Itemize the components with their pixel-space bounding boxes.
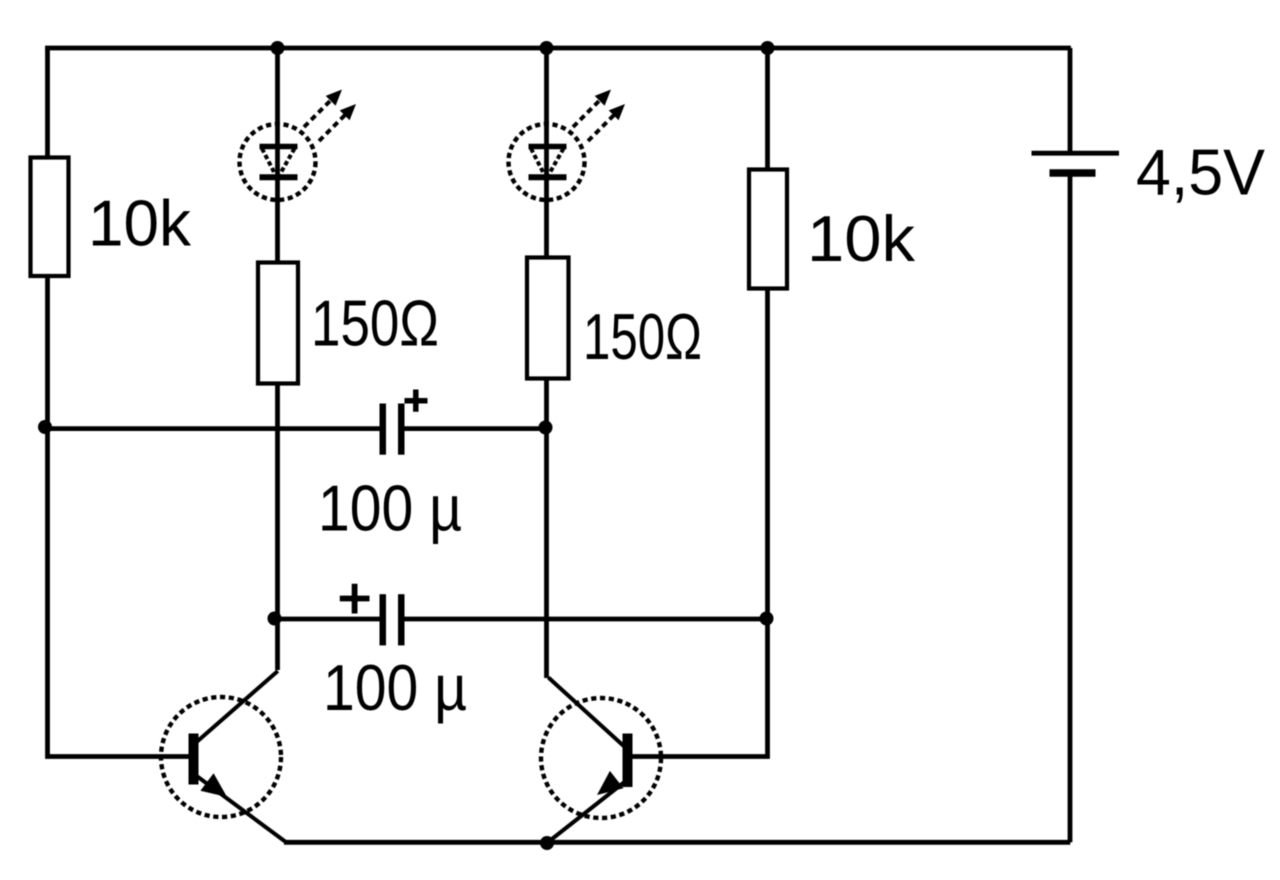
transistor Q2 emitter lead [548,780,628,843]
svg-text:100 µ: 100 µ [318,472,462,545]
wire capacitor C1 left lead [48,426,381,431]
wire bottom rail [284,840,1070,845]
LED D1 triangle anode bar [260,144,298,150]
capacitor C1 left plate [380,404,387,455]
LED D1 triangle left side [262,149,276,176]
svg-text:10k: 10k [807,202,916,275]
transistor Q2 collector lead [548,678,627,750]
node branch2 / C1 lead [539,421,553,435]
capacitor C2 left plate [380,594,387,645]
LED D1 cathode bar [260,174,298,180]
transistor Q1 base bar [189,734,199,785]
transistor Q2 emitter arrowhead [597,771,624,795]
transistor Q1 circle [161,697,281,817]
wire capacitor C2 right lead [405,617,767,622]
LED D1 light arrow 2 head [340,104,356,120]
LED D2 light arrow 1 head [595,90,611,106]
node left rail / C1 lead [38,420,52,434]
svg-text:10k: 10k [88,187,191,260]
transistor Q2 base bar [623,734,633,788]
wire capacitor C1 right lead [404,426,546,431]
battery BT1 negative plate [1050,169,1096,176]
capacitor C1 right plate [398,404,405,455]
wire left rail with Q1 base lead [48,46,189,757]
LED D2 light arrow 2 head [609,104,625,120]
LED D2 light arrow 1 shaft [573,91,609,127]
LED D1 light arrow 1 head [326,90,342,106]
LED D2 triangle anode bar [529,144,567,150]
resistor R4 10k right [749,170,787,289]
LED D2 triangle right side [549,149,564,176]
wire branch 2 (LED2 / 150ohm chain down to Q2 collector) [544,46,549,678]
resistor R1 10k left [31,158,69,277]
wire branch 4 (right 10k down to Q2 base lead) [633,46,768,757]
wire capacitor C2 left lead [278,617,380,622]
node branch1 / C2 lead [268,612,282,626]
resistor R3 150ohm right [527,258,569,379]
svg-text:150Ω: 150Ω [311,287,439,360]
node branch4 / top rail [761,41,775,55]
LED D2 triangle left side [531,149,545,176]
LED D1 triangle right side [280,149,295,176]
svg-text:150Ω: 150Ω [583,300,702,373]
LED D1 light arrow 1 shaft [304,91,340,127]
LED D2 circle [509,124,585,200]
wire top rail [45,46,1071,51]
transistor Q2 circle [541,698,661,818]
node branch2 / top rail [540,41,554,55]
node Q2 emitter / bottom rail [540,836,554,850]
wire right rail bottom (battery to bottom rail) [1068,177,1073,843]
wire right rail top (to battery) [1068,48,1073,151]
node branch4 / C2 lead [760,612,774,626]
LED D2 cathode bar [529,174,567,180]
capacitor C1 plus sign [405,390,428,412]
svg-text:100 µ: 100 µ [323,651,467,724]
LED D1 light arrow 2 shaft [319,106,354,141]
transistor Q1 emitter lead [196,776,286,843]
svg-text:4,5V: 4,5V [1136,136,1266,209]
transistor Q1 emitter arrowhead [200,773,227,797]
capacitor C2 plus sign [340,584,370,614]
battery BT1 positive plate [1032,151,1120,156]
node branch1 / top rail [271,41,285,55]
LED D2 light arrow 2 shaft [588,106,623,141]
wire branch 1 (LED1 / 150ohm chain down to Q1 collector) [275,46,280,670]
LED D1 circle [240,124,316,200]
resistor R2 150ohm left [258,263,298,384]
capacitor C2 right plate [398,594,405,645]
transistor Q1 collector lead [196,671,278,743]
